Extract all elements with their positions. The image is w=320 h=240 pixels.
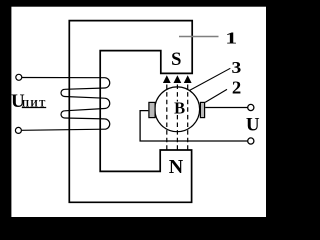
- svg-text:В: В: [174, 98, 185, 117]
- svg-text:N: N: [169, 156, 184, 178]
- svg-text:U: U: [246, 114, 260, 135]
- svg-text:1: 1: [225, 30, 237, 48]
- svg-text:S: S: [171, 50, 181, 70]
- svg-text:2: 2: [232, 78, 241, 98]
- svg-text:3: 3: [232, 58, 242, 77]
